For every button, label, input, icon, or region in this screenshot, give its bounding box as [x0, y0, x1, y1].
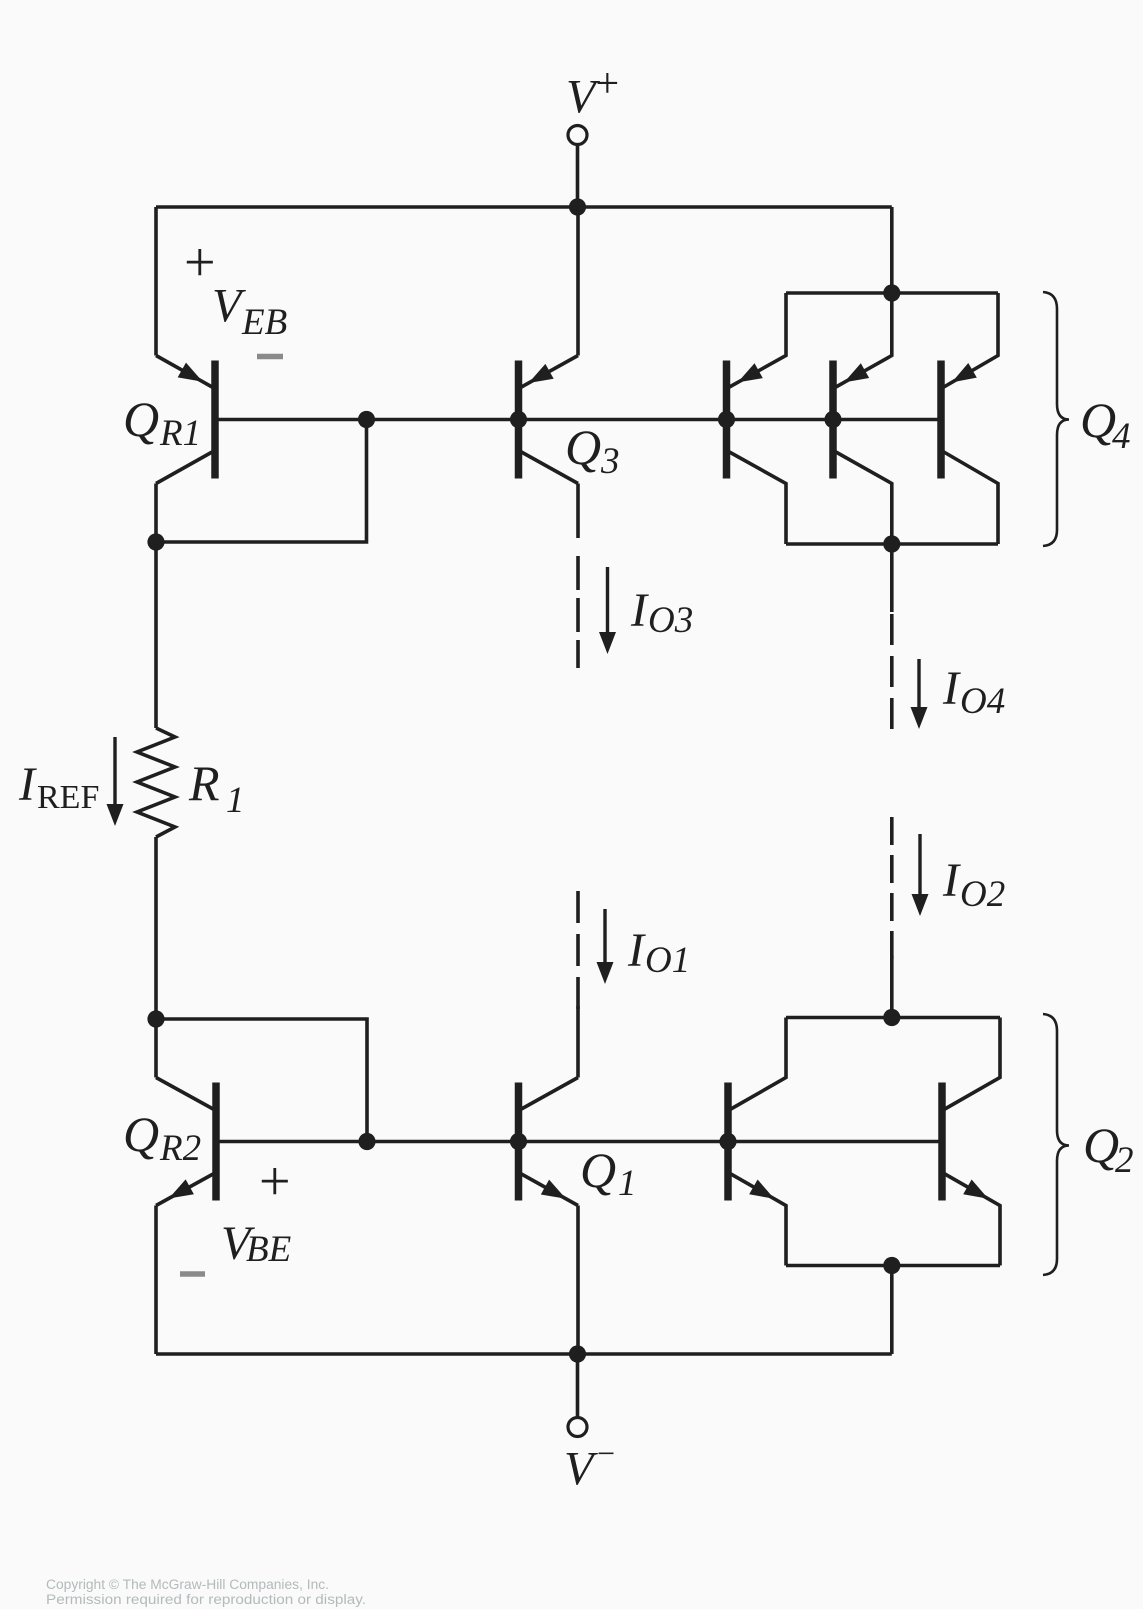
label + (V_EB polarity) — [184, 232, 216, 294]
transistor Q2 unit 2 (npn) — [942, 1018, 1000, 1266]
svg-text:REF: REF — [37, 779, 99, 816]
svg-text:I: I — [942, 854, 961, 907]
wire Q1 collector (solid part) — [576, 1006, 580, 1078]
svg-text:2: 2 — [1115, 1140, 1134, 1181]
label V_BE — [221, 1217, 291, 1270]
transistor Q4 unit 3 (pnp) — [941, 293, 998, 544]
Q4 emitter bus wire — [786, 291, 998, 295]
wire Q2 emitter bus down to bottom rail — [890, 1266, 894, 1355]
transistor Q1 (npn) — [519, 1078, 579, 1207]
wire QR2 collector up to node — [154, 1019, 158, 1078]
base wire Q1 to Q2 units — [519, 1140, 943, 1144]
current arrow I_O1 — [597, 909, 614, 984]
wire top rail to Q3 emitter — [576, 207, 580, 356]
svg-text:I: I — [630, 584, 649, 637]
svg-text:O1: O1 — [645, 940, 690, 981]
label Q3 — [565, 419, 620, 482]
wire Q1 collector output (dashed) — [576, 891, 580, 1009]
wire QR1 collector down to node — [154, 484, 158, 543]
wire R1 bottom lead — [154, 837, 158, 1019]
svg-text:BE: BE — [246, 1229, 291, 1270]
svg-text:O3: O3 — [648, 600, 693, 641]
Q4 collector bus wire — [786, 542, 998, 546]
wire Q4 collector output (dashed) — [890, 614, 894, 739]
label QR2 — [123, 1106, 201, 1169]
base wire Q3 to Q4 units — [519, 418, 942, 422]
brace for Q4 group — [1043, 292, 1069, 546]
brace for Q2 group — [1043, 1014, 1069, 1275]
svg-text:1: 1 — [226, 780, 245, 821]
node bottom rail / V- junction — [569, 1345, 586, 1362]
transistor Q4 unit 1 (pnp) — [727, 293, 787, 544]
wire Q1 emitter to bottom rail — [576, 1206, 580, 1355]
power terminal V- circle — [568, 1418, 587, 1437]
bottom rail wire (V- net) — [156, 1352, 892, 1356]
wire QR2 emitter down to bottom rail — [154, 1206, 158, 1355]
svg-text:+: + — [184, 232, 216, 294]
svg-text:+: + — [259, 1151, 291, 1213]
copyright notice — [46, 1577, 366, 1607]
svg-text:I: I — [627, 924, 646, 977]
svg-text:EB: EB — [241, 302, 287, 343]
label Q4 — [1080, 392, 1131, 457]
svg-text:Q: Q — [565, 419, 601, 475]
label I_O2 — [942, 854, 1005, 915]
svg-text:Copyright © The McGraw-Hill Co: Copyright © The McGraw-Hill Companies, I… — [46, 1577, 329, 1592]
node Q3 base junction — [510, 411, 527, 428]
label V_EB — [212, 280, 287, 344]
svg-text:R: R — [188, 755, 220, 811]
wire Q2 collector (solid part) — [890, 955, 894, 1018]
wire base-to-collector feedback of QR2 — [156, 1019, 367, 1142]
node Q2 collector bus junction — [883, 1009, 900, 1026]
current arrow I_O4 — [911, 659, 928, 729]
current arrow I_REF — [107, 737, 124, 826]
power terminal V- label — [564, 1435, 615, 1496]
transistor QR2 (npn, diode-connected) — [156, 1078, 216, 1206]
svg-text:1: 1 — [618, 1163, 637, 1204]
wire Q3 collector (solid part) — [576, 484, 580, 539]
wire Q4 collector (solid part) — [890, 544, 894, 612]
node QR1 base feedback junction — [358, 411, 375, 428]
base wire QR2 to Q1 — [219, 1140, 519, 1144]
label I_O4 — [942, 662, 1005, 722]
svg-text:Q: Q — [1083, 1117, 1119, 1173]
node Q4 emitter bus junction — [883, 284, 900, 301]
svg-text:I: I — [942, 662, 961, 715]
power terminal V+ label — [566, 61, 619, 124]
svg-text:+: + — [596, 61, 620, 107]
node Q2 unit-1 base junction — [719, 1133, 736, 1150]
wire bottom rail to V- terminal — [576, 1354, 580, 1417]
wire base-to-collector feedback of QR1 — [156, 420, 367, 543]
svg-text:I: I — [18, 758, 37, 811]
transistor Q4 unit 2 (pnp) — [833, 293, 892, 544]
label I_O3 — [630, 584, 693, 641]
label Q2 — [1083, 1117, 1134, 1181]
label I_REF — [18, 758, 99, 816]
current arrow I_O2 — [912, 834, 929, 916]
label + (V_BE polarity) — [259, 1151, 291, 1213]
current arrow I_O3 — [599, 567, 616, 654]
wire Q3 collector output (dashed) — [576, 556, 580, 668]
resistor R1 — [137, 728, 175, 837]
label - (V_BE polarity) — [180, 1271, 205, 1277]
node Q4 unit-1 base junction — [718, 411, 735, 428]
power terminal V+ circle — [568, 126, 587, 145]
svg-text:4: 4 — [1112, 416, 1131, 457]
wire top rail to QR1 emitter — [154, 207, 158, 356]
svg-text:O4: O4 — [960, 681, 1005, 722]
label Q1 — [580, 1142, 637, 1204]
svg-text:−: − — [597, 1435, 615, 1471]
Q2 collector bus wire — [786, 1016, 1000, 1020]
transistor QR1 (pnp, diode-connected) — [156, 356, 215, 484]
wire Q2 collector output (dashed) — [890, 817, 894, 959]
node Q4 unit-2 base junction — [824, 411, 841, 428]
node top rail / V+ junction — [569, 198, 586, 215]
node QR2 base feedback junction — [358, 1133, 375, 1150]
svg-text:V: V — [212, 280, 246, 333]
wire R1 top lead — [154, 542, 158, 728]
top rail wire (V+ net) — [156, 205, 892, 209]
Q2 emitter bus wire — [786, 1264, 1000, 1268]
node Q4 collector bus junction — [883, 535, 900, 552]
svg-text:R1: R1 — [159, 413, 201, 454]
svg-text:3: 3 — [600, 441, 620, 482]
transistor Q3 (pnp) — [519, 356, 579, 484]
svg-text:V: V — [564, 1443, 598, 1496]
label R1 — [188, 755, 245, 821]
wire V+ terminal to top rail — [576, 145, 580, 208]
svg-text:Q: Q — [123, 391, 159, 447]
transistor Q2 unit 1 (npn) — [728, 1018, 786, 1266]
node QR1 collector / R1 top junction — [147, 533, 164, 550]
node R1 bottom / QR2 junction — [147, 1010, 164, 1027]
svg-text:Q: Q — [580, 1142, 616, 1198]
svg-text:Permission required for reprod: Permission required for reproduction or … — [46, 1592, 366, 1607]
wire top rail right corner down to Q4 emitter bus — [890, 207, 894, 293]
label - (V_EB polarity) — [257, 354, 283, 360]
svg-text:Q: Q — [1080, 392, 1116, 448]
svg-text:R2: R2 — [159, 1128, 201, 1169]
svg-text:Q: Q — [123, 1106, 159, 1162]
node Q2 emitter bus junction — [883, 1257, 900, 1274]
label I_O1 — [627, 924, 690, 981]
svg-text:O2: O2 — [960, 874, 1005, 915]
label QR1 — [123, 391, 201, 454]
node Q1 base junction — [510, 1133, 527, 1150]
base wire QR1 to Q3 — [218, 418, 519, 422]
